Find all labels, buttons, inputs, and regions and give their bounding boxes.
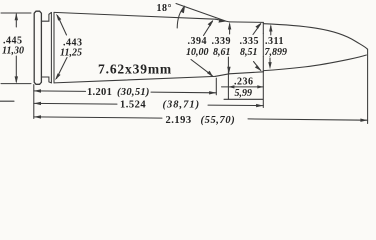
svg-text:.339: .339 [212,36,232,47]
svg-text:.394: .394 [188,36,208,47]
svg-text:1.201: 1.201 [87,87,112,98]
svg-text:7,899: 7,899 [265,47,288,58]
svg-text:7.62x39mm: 7.62x39mm [98,61,172,76]
svg-text:.311: .311 [265,36,284,47]
svg-text:10,00: 10,00 [186,47,209,58]
svg-text:8,51: 8,51 [240,47,258,58]
svg-text:.236: .236 [234,77,254,88]
svg-text:11,25: 11,25 [60,47,82,58]
svg-text:(30,51): (30,51) [117,87,150,98]
svg-text:1.524: 1.524 [120,100,146,111]
svg-text:5,99: 5,99 [235,88,253,99]
svg-text:11,30: 11,30 [2,45,24,56]
svg-text:18°: 18° [157,3,173,14]
svg-text:(38,71): (38,71) [163,100,201,111]
svg-text:8,61: 8,61 [213,47,231,58]
svg-text:2.193: 2.193 [166,115,192,126]
svg-text:(55,70): (55,70) [201,115,236,126]
svg-text:.335: .335 [240,36,260,47]
